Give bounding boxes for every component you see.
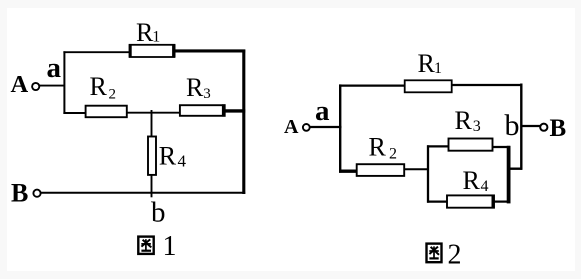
caption glyph 图 (fig 2) [427, 244, 442, 263]
wire right vertical (fig2) [520, 84, 522, 170]
svg-text:4: 4 [481, 178, 489, 195]
svg-text:R: R [463, 166, 481, 195]
wire left vertical [63, 51, 65, 114]
resistor R4 box [148, 137, 156, 175]
wire R2 to R3 [127, 112, 180, 114]
parallel box left vertical (fig2) [427, 145, 429, 202]
resistor R3 box (fig2) [449, 139, 493, 151]
svg-text:B: B [11, 179, 28, 208]
svg-text:3: 3 [473, 118, 481, 135]
wire bottom lead-in thick (fig2) [339, 169, 358, 172]
wire R4 bottom lead [151, 175, 153, 198]
resistor R3 right end cap [222, 104, 226, 116]
terminal B circle [33, 190, 40, 197]
wire top left segment (fig2) [339, 84, 406, 86]
scan edge tint bottom [0, 271, 581, 279]
svg-text:2: 2 [109, 86, 117, 102]
wire top left segment [63, 51, 130, 53]
svg-text:A: A [11, 71, 29, 98]
svg-text:4: 4 [178, 152, 187, 171]
wire top right segment (thick) [174, 49, 245, 52]
wire R4 to box right vertical (fig2) [494, 201, 510, 203]
svg-text:R: R [418, 49, 436, 78]
wire box top-left to R3 (fig2) [427, 145, 450, 147]
parallel box right vertical thick (fig2) [507, 146, 511, 204]
wire R2 to parallel box (fig2) [404, 168, 429, 170]
svg-text:2: 2 [389, 146, 397, 163]
resistor R4 box (fig2) [447, 195, 494, 207]
terminal A circle [32, 83, 39, 90]
wire bottom [41, 192, 245, 194]
svg-text:3: 3 [203, 86, 211, 102]
wire to terminal B (fig2) [521, 125, 540, 127]
resistor R2 box (fig2) [357, 164, 405, 176]
terminal A circle (fig2) [303, 124, 310, 131]
wire R4 top lead [151, 110, 153, 137]
wire parallel box output stub (fig2) [508, 167, 523, 169]
svg-text:R: R [136, 18, 154, 47]
svg-text:b: b [151, 197, 166, 229]
wire R3 to box right vertical (fig2) [493, 146, 511, 148]
svg-text:2: 2 [448, 240, 462, 271]
wire box bottom-left to R4 (fig2) [427, 201, 448, 203]
scan edge tint right [575, 0, 581, 279]
resistor R1 box (fig2) [405, 80, 452, 92]
svg-text:A: A [284, 116, 299, 138]
wire right vertical (thick) [242, 50, 245, 195]
terminal B circle (fig2) [540, 124, 547, 131]
svg-text:a: a [47, 52, 62, 84]
svg-text:b: b [505, 109, 520, 142]
resistor R1 box [130, 45, 175, 57]
svg-text:a: a [315, 95, 330, 127]
wire top right segment (fig2) [451, 84, 522, 86]
svg-text:R: R [186, 73, 204, 102]
scan edge tint top [0, 0, 581, 8]
wire A to left vertical (fig2) [310, 126, 342, 128]
resistor R1 end caps [129, 44, 132, 57]
svg-text:B: B [550, 115, 567, 142]
svg-text:1: 1 [152, 29, 160, 46]
caption glyph 图 (fig 1) [138, 237, 153, 254]
svg-text:1: 1 [163, 231, 177, 262]
wire A to left vertical [40, 85, 66, 87]
svg-text:1: 1 [434, 60, 442, 77]
resistor R4 right end cap (fig2) [492, 195, 495, 209]
svg-text:R: R [369, 132, 387, 161]
resistor R3 box [180, 105, 225, 116]
scan edge tint left [0, 0, 7, 279]
svg-text:R: R [159, 142, 177, 171]
svg-text:R: R [90, 72, 108, 101]
wire middle left segment [63, 112, 86, 114]
wire R3 to right vertical (thick) [224, 109, 245, 112]
svg-text:R: R [455, 106, 473, 135]
resistor R2 box [86, 106, 127, 118]
wire left vertical (fig2) [339, 84, 341, 172]
